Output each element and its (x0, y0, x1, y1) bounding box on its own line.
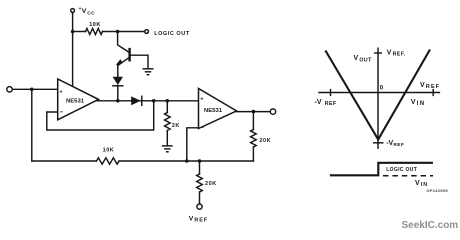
svg-text:IN: IN (421, 182, 428, 188)
svg-text:CC: CC (87, 10, 95, 16)
svg-text:OP13290S: OP13290S (427, 188, 449, 193)
svg-text:V: V (354, 55, 359, 62)
svg-text:REF: REF (194, 218, 208, 224)
svg-text:V: V (387, 50, 392, 57)
svg-text:REF: REF (325, 101, 337, 107)
svg-text:NE531: NE531 (204, 108, 223, 114)
svg-text:V: V (420, 82, 425, 89)
svg-text:2K: 2K (172, 123, 180, 129)
svg-text:−: − (200, 124, 204, 131)
svg-text:V: V (415, 180, 420, 187)
svg-text:10K: 10K (103, 148, 115, 154)
svg-text:LOGIC OUT: LOGIC OUT (154, 31, 190, 37)
svg-text:REF.: REF. (393, 52, 406, 58)
svg-text:20K: 20K (259, 138, 271, 144)
svg-text:V: V (82, 8, 87, 15)
svg-text:10K: 10K (89, 22, 101, 28)
svg-text:REF: REF (393, 142, 404, 148)
svg-text:LOGIC OUT: LOGIC OUT (386, 167, 417, 173)
svg-text:IN: IN (417, 101, 426, 107)
svg-text:OUT: OUT (359, 57, 372, 63)
svg-text:−: − (60, 109, 64, 116)
svg-text:V: V (189, 215, 194, 222)
svg-text:20K: 20K (205, 181, 217, 187)
svg-text:-V: -V (315, 99, 322, 106)
svg-text:SeekIC.com: SeekIC.com (402, 220, 459, 231)
svg-text:NE531: NE531 (66, 98, 85, 104)
svg-text:V: V (411, 99, 416, 106)
svg-text:REF: REF (426, 84, 440, 90)
